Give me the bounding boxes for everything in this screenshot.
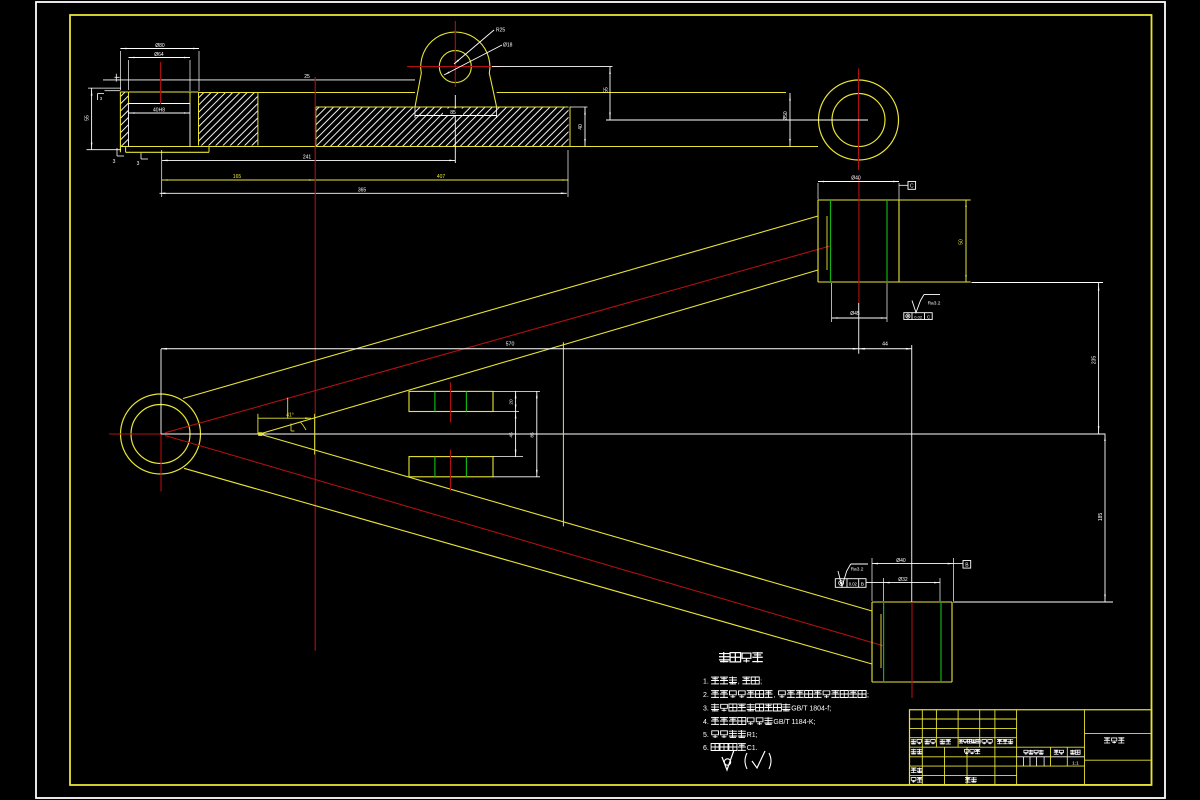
svg-text:4.: 4. [703, 719, 709, 726]
svg-text:40: 40 [578, 124, 584, 130]
svg-text:55: 55 [84, 115, 90, 121]
svg-text:;: ; [867, 692, 869, 699]
svg-text:C: C [910, 184, 914, 190]
svg-text:3: 3 [137, 161, 140, 167]
svg-text:55: 55 [604, 87, 610, 93]
svg-text:0.02: 0.02 [849, 582, 858, 587]
svg-text:R25: R25 [496, 28, 505, 34]
svg-text:Ø45: Ø45 [850, 311, 860, 317]
svg-text:0.02: 0.02 [914, 314, 923, 319]
svg-text:,: , [773, 692, 775, 699]
svg-text:3.: 3. [703, 706, 709, 713]
svg-text:41°: 41° [286, 413, 294, 419]
svg-text:44: 44 [882, 342, 888, 348]
svg-text:20: 20 [509, 399, 515, 405]
svg-text:235: 235 [1091, 356, 1097, 365]
svg-text:;: ; [760, 679, 762, 686]
svg-text:3: 3 [113, 159, 116, 165]
svg-text:2.: 2. [703, 692, 709, 699]
svg-text:GB/T 1184-K;: GB/T 1184-K; [773, 719, 815, 726]
svg-text:Ø40: Ø40 [851, 176, 861, 182]
svg-text:Ø80: Ø80 [155, 43, 165, 49]
svg-text:Ø32: Ø32 [898, 577, 908, 583]
svg-text:Ø50: Ø50 [783, 111, 789, 121]
svg-text:6.: 6. [703, 745, 709, 752]
svg-text:1.: 1. [703, 679, 709, 686]
svg-text:85: 85 [530, 432, 536, 438]
svg-text:,: , [738, 679, 740, 686]
svg-text:Ra3.2: Ra3.2 [928, 301, 941, 307]
svg-text:B: B [861, 582, 864, 588]
svg-text:Ra3.2: Ra3.2 [851, 567, 864, 573]
svg-text:40H8: 40H8 [153, 107, 165, 113]
svg-text:C1.: C1. [747, 745, 758, 752]
svg-text:185: 185 [1098, 513, 1104, 522]
svg-text:25: 25 [304, 74, 310, 80]
svg-text:165: 165 [233, 174, 242, 180]
svg-text:GB/T 1804-f;: GB/T 1804-f; [791, 706, 831, 713]
svg-text:Ø40: Ø40 [896, 558, 906, 564]
svg-text:241: 241 [303, 155, 312, 161]
svg-text:45: 45 [509, 432, 515, 438]
svg-text:365: 365 [358, 188, 367, 194]
svg-text:Ø18: Ø18 [503, 43, 513, 49]
svg-text:Ø64: Ø64 [154, 52, 164, 58]
svg-text:407: 407 [437, 174, 446, 180]
svg-text:85: 85 [450, 110, 456, 116]
svg-text:1:1: 1:1 [1072, 761, 1079, 766]
svg-text:50: 50 [959, 239, 965, 245]
svg-text:R1;: R1; [747, 732, 758, 739]
svg-text:570: 570 [506, 342, 515, 348]
svg-text:5.: 5. [703, 732, 709, 739]
